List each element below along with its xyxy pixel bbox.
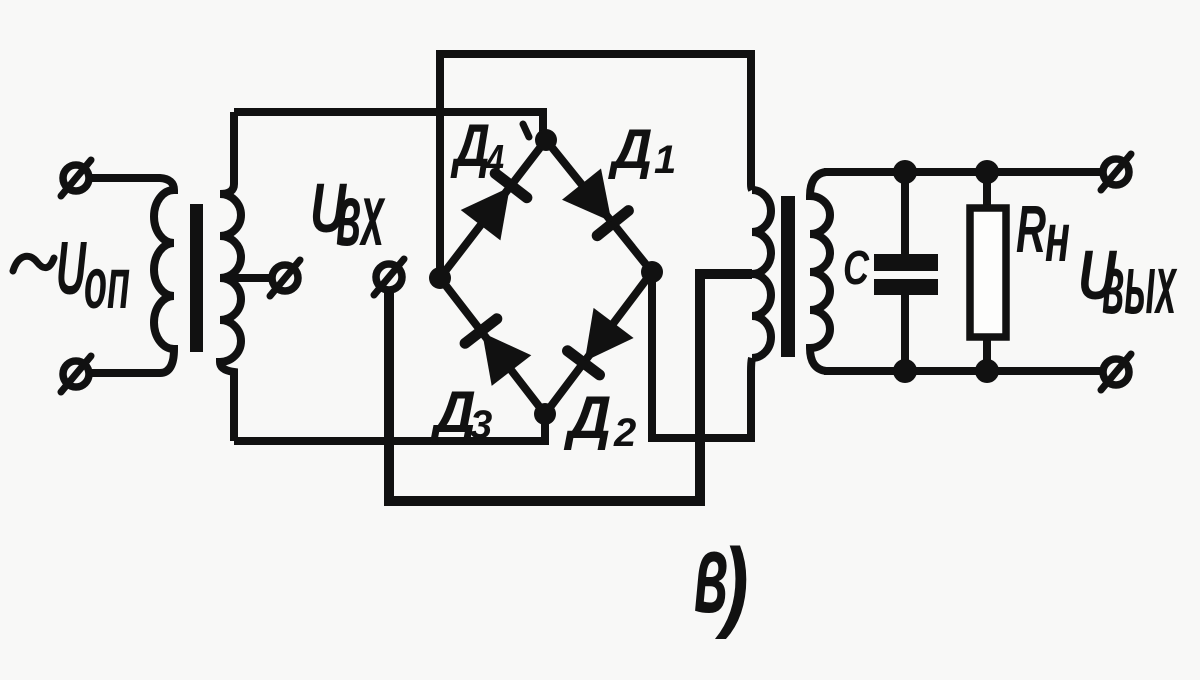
svg-text:U: U xyxy=(56,226,87,310)
svg-text:C: C xyxy=(843,242,870,295)
svg-text:4: 4 xyxy=(485,136,504,183)
svg-text:3: 3 xyxy=(470,403,492,447)
svg-text:R: R xyxy=(1016,192,1046,267)
svg-text:Д: Д xyxy=(450,112,490,179)
svg-text:1: 1 xyxy=(654,138,676,182)
svg-text:Д: Д xyxy=(608,117,652,180)
svg-text:вых: вых xyxy=(1102,237,1177,331)
svg-text:вх: вх xyxy=(336,166,386,265)
svg-text:Д: Д xyxy=(429,380,476,445)
svg-text:оп: оп xyxy=(84,244,130,324)
svg-text:Д: Д xyxy=(563,384,611,451)
svg-text:2: 2 xyxy=(613,411,636,455)
svg-text:н: н xyxy=(1045,198,1070,276)
